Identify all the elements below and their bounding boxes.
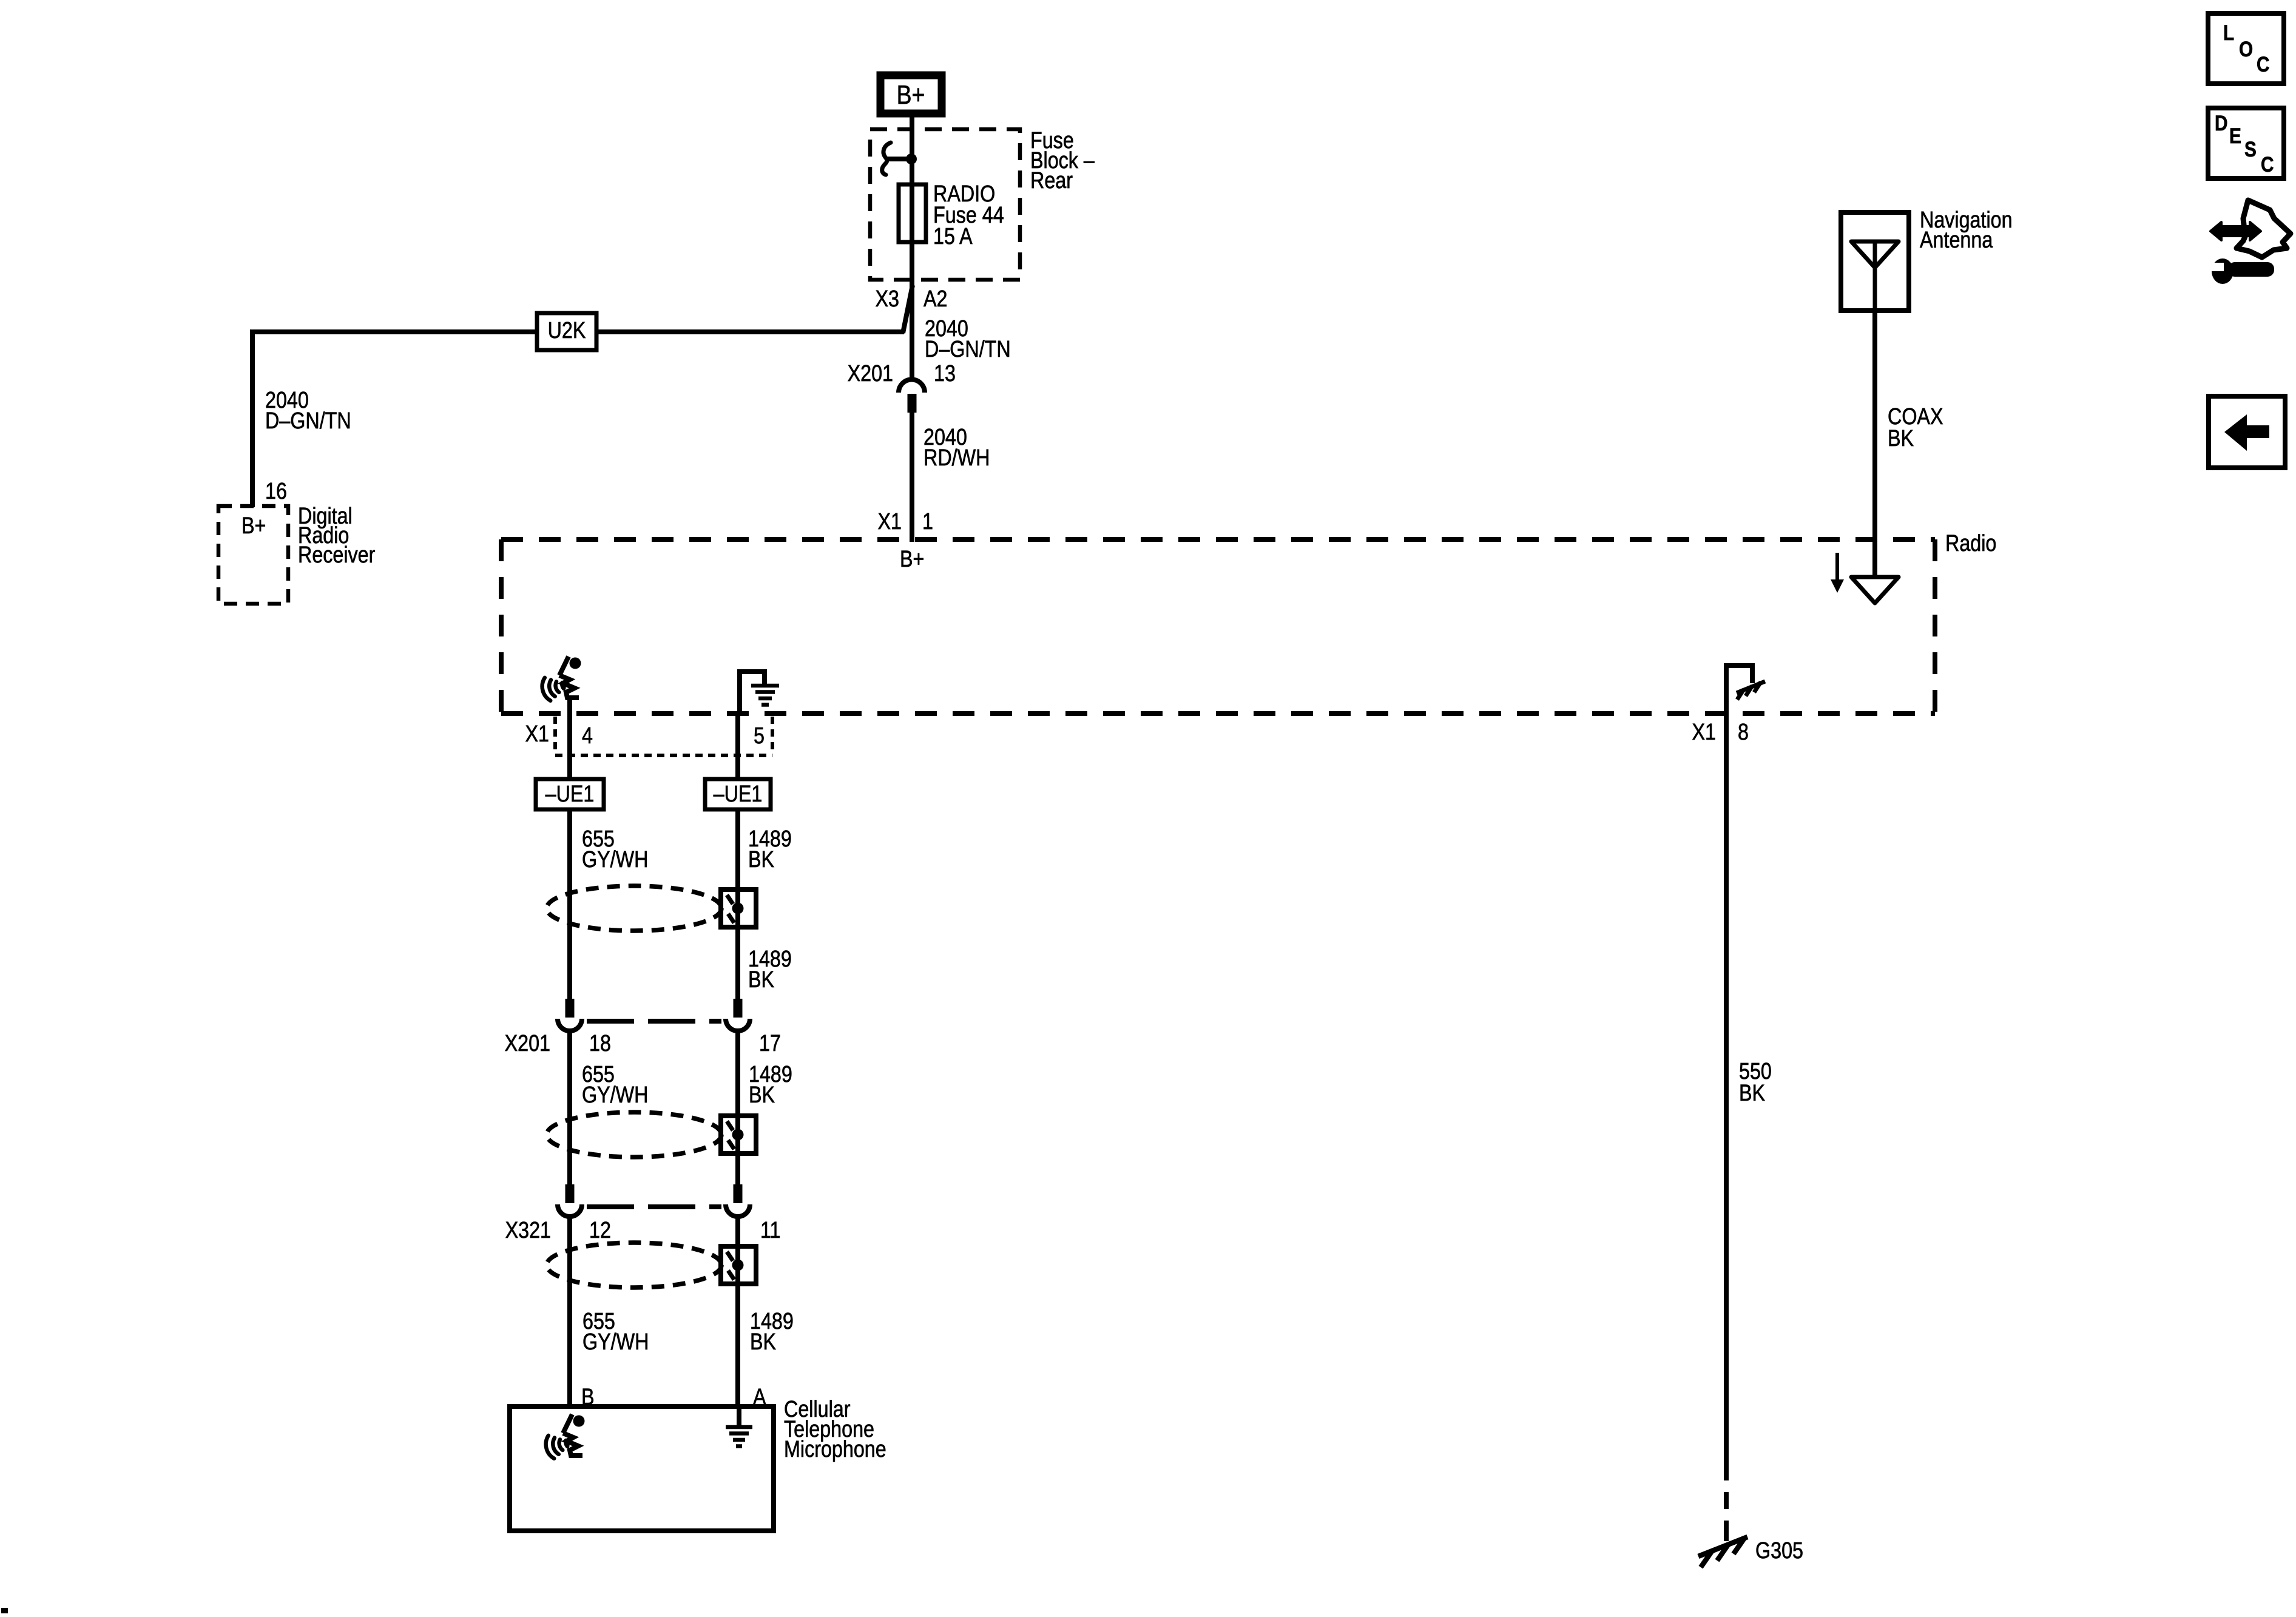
radio box bottom edge xyxy=(501,711,1935,716)
wire stub at G305 xyxy=(1724,1521,1729,1541)
svg-text:BK: BK xyxy=(748,847,775,873)
connector bracket dotted right xyxy=(771,717,774,755)
svg-text:Microphone: Microphone xyxy=(784,1437,886,1462)
page mark bottom-left xyxy=(1,1608,8,1613)
svg-text:X321: X321 xyxy=(505,1218,551,1243)
navigation antenna symbol xyxy=(1851,241,1899,268)
svg-text:X3: X3 xyxy=(876,286,899,312)
svg-text:1: 1 xyxy=(922,509,933,535)
svg-text:BK: BK xyxy=(748,967,775,993)
svg-text:17: 17 xyxy=(759,1031,781,1056)
twisted pair shield ellipse 1 xyxy=(547,886,721,931)
option box -UE1 right xyxy=(705,779,771,809)
wire radio pin4 to -UE1 xyxy=(567,714,572,779)
svg-text:X201: X201 xyxy=(848,361,893,387)
svg-text:Antenna: Antenna xyxy=(1920,228,1993,253)
svg-text:X1: X1 xyxy=(1692,720,1716,745)
fuse RADIO Fuse 44 element xyxy=(899,184,926,242)
svg-text:D–GN/TN: D–GN/TN xyxy=(925,337,1011,362)
connector X321-11 terminals xyxy=(726,1184,750,1217)
fuse block - rear dashed box xyxy=(870,129,1020,280)
wire junction to fuse xyxy=(910,159,914,186)
wire fuse to X201 connector xyxy=(910,242,914,380)
svg-text:C: C xyxy=(2261,153,2274,177)
DESC navigation icon box xyxy=(2208,108,2284,178)
navigation antenna box xyxy=(1841,212,1909,311)
wire mic ground seg3 xyxy=(735,1218,740,1409)
svg-text:L: L xyxy=(2223,21,2234,45)
service icon double arrow xyxy=(2210,222,2261,240)
radio box right edge xyxy=(1933,539,1937,714)
svg-text:C: C xyxy=(2257,53,2269,76)
svg-text:RD/WH: RD/WH xyxy=(923,445,990,471)
option box -UE1 left xyxy=(536,779,604,809)
svg-text:B+: B+ xyxy=(897,79,925,110)
svg-text:GY/WH: GY/WH xyxy=(582,1329,649,1355)
connector X201 body dashed line xyxy=(587,1019,721,1024)
svg-text:18: 18 xyxy=(589,1031,611,1056)
wire radio pin5 to -UE1 xyxy=(735,714,740,779)
connector X321 body dashed line xyxy=(587,1204,721,1209)
radio internal chassis ground symbol xyxy=(751,686,779,705)
fuse block bus hook symbol xyxy=(882,143,891,175)
coax wire antenna to radio xyxy=(1872,311,1877,577)
radio antenna symbol xyxy=(1851,577,1899,603)
connector X201-13 female terminal arc xyxy=(899,380,925,393)
power symbol B+ box xyxy=(880,75,942,113)
connector bracket dotted left xyxy=(553,717,557,755)
ground symbol G305 xyxy=(1698,1537,1747,1567)
bus wire to junction xyxy=(886,157,910,161)
svg-text:15 A: 15 A xyxy=(933,224,973,249)
svg-text:BK: BK xyxy=(1888,426,1914,451)
svg-text:B+: B+ xyxy=(241,513,266,539)
LOC navigation icon box xyxy=(2208,13,2284,84)
wire to G305 dashed xyxy=(1724,1463,1729,1531)
svg-text:11: 11 xyxy=(760,1218,781,1243)
svg-text:16: 16 xyxy=(265,479,287,504)
connector X201-17 terminals xyxy=(726,999,750,1031)
radio antenna input arrow xyxy=(1831,553,1844,593)
svg-text:BK: BK xyxy=(749,1082,775,1108)
shield drain connector 3 xyxy=(721,1246,756,1284)
svg-text:S: S xyxy=(2244,138,2257,161)
svg-text:B+: B+ xyxy=(900,547,924,572)
svg-text:Rear: Rear xyxy=(1030,168,1073,194)
wire mic ground seg2 xyxy=(735,1033,740,1186)
svg-text:U2K: U2K xyxy=(548,318,586,343)
junction dot on B+ bus xyxy=(906,154,917,164)
wire mic signal seg2 xyxy=(567,1033,572,1186)
chassis ground symbol inside phone box xyxy=(726,1427,752,1447)
wire U2K left segment and drop xyxy=(252,332,538,507)
wire X201-13 to radio X1-1 xyxy=(910,413,914,542)
svg-text:X1: X1 xyxy=(525,721,549,747)
service icon part outline xyxy=(2237,200,2291,257)
radio mic pin wire xyxy=(567,699,572,716)
back arrow symbol xyxy=(2224,414,2269,451)
svg-text:E: E xyxy=(2229,124,2241,148)
svg-text:GY/WH: GY/WH xyxy=(582,847,648,873)
back arrow icon box xyxy=(2209,396,2285,468)
radio box left edge xyxy=(499,539,504,714)
svg-text:BK: BK xyxy=(1739,1081,1766,1106)
phone ground pin wire xyxy=(737,1406,741,1427)
wire B+ to fuse block xyxy=(910,117,914,159)
connector X321-12 terminals xyxy=(558,1184,582,1217)
twisted pair shield ellipse 3 xyxy=(547,1243,721,1288)
svg-text:X1: X1 xyxy=(878,509,902,535)
connector X201-13 male terminal xyxy=(908,394,917,413)
shield drain connector 1 xyxy=(721,890,756,927)
wire through fuse xyxy=(910,184,914,242)
svg-text:5: 5 xyxy=(754,723,765,749)
twisted pair shield ellipse 2 xyxy=(547,1112,721,1157)
digital radio receiver dashed box xyxy=(218,506,288,604)
svg-text:12: 12 xyxy=(589,1218,611,1243)
svg-text:8: 8 xyxy=(1738,720,1749,745)
svg-text:13: 13 xyxy=(934,361,956,387)
wire branch diagonal to U2K xyxy=(903,285,913,333)
wire X1-8 to G305 solid xyxy=(1724,714,1729,1463)
radio internal ground symbol at X1-8 xyxy=(1737,681,1765,700)
radio box top edge xyxy=(501,537,1935,542)
svg-text:–UE1: –UE1 xyxy=(545,781,595,807)
svg-text:GY/WH: GY/WH xyxy=(582,1082,648,1108)
radio X1-8 internal wire jog xyxy=(1726,666,1752,716)
svg-text:–UE1: –UE1 xyxy=(714,781,763,807)
radio internal ground wire jog xyxy=(740,672,765,716)
connector X201-18 terminals xyxy=(558,999,582,1031)
svg-text:Radio: Radio xyxy=(1945,531,1996,556)
shield drain connector 2 xyxy=(721,1116,756,1153)
wire U2K right segment xyxy=(596,329,904,334)
svg-text:Receiver: Receiver xyxy=(298,542,376,568)
wire mic signal seg1 xyxy=(567,809,572,1000)
wire mic ground seg1 xyxy=(735,809,740,1000)
connector bracket dotted bottom xyxy=(555,754,772,757)
svg-text:A2: A2 xyxy=(923,286,947,312)
microphone symbol inside phone box xyxy=(544,1414,585,1460)
svg-text:BK: BK xyxy=(750,1329,777,1355)
svg-text:4: 4 xyxy=(582,723,593,749)
microphone symbol inside radio xyxy=(540,657,581,702)
svg-text:G305: G305 xyxy=(1755,1538,1803,1564)
wire mic signal seg3 xyxy=(567,1218,572,1409)
cellular telephone microphone box xyxy=(510,1406,774,1531)
service icon wrench xyxy=(2208,258,2274,284)
svg-text:D–GN/TN: D–GN/TN xyxy=(265,408,351,434)
navigation antenna feed line xyxy=(1873,241,1877,311)
svg-text:X201: X201 xyxy=(505,1031,550,1056)
svg-text:D: D xyxy=(2215,112,2227,135)
option box U2K xyxy=(537,313,596,350)
svg-text:O: O xyxy=(2239,38,2253,61)
